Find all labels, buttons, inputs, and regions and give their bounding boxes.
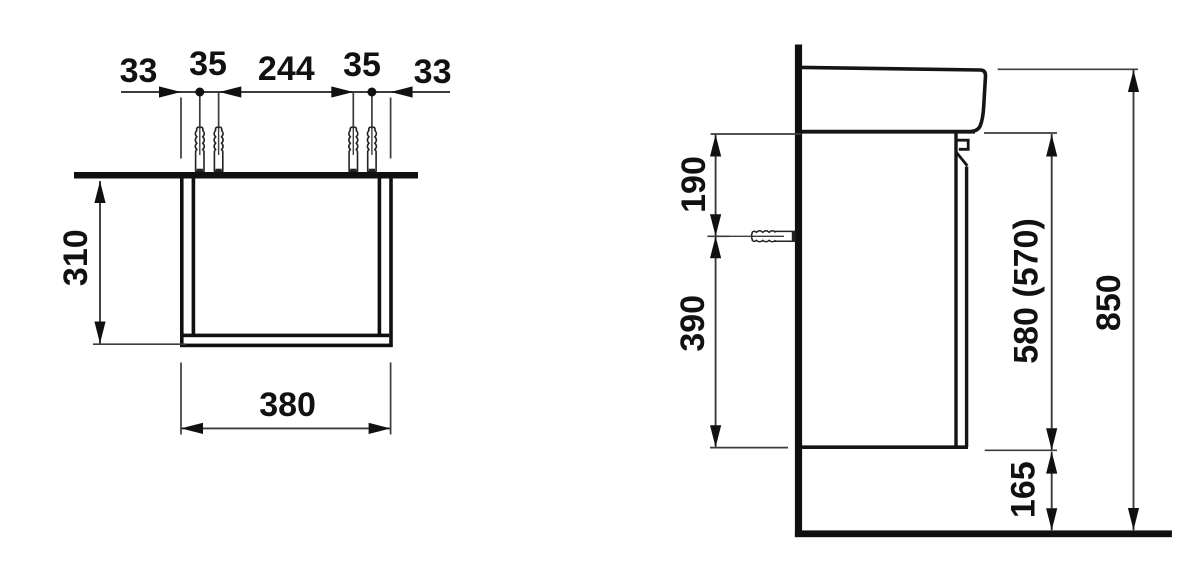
dot at dowel 4 — [367, 88, 376, 97]
tabletop panel — [74, 172, 418, 179]
floor — [795, 530, 1172, 537]
arrow right at box left ext — [159, 86, 181, 97]
arrow left at dowel2 — [219, 86, 241, 97]
cabinet top line extension under basin — [802, 130, 975, 134]
svg-text:310: 310 — [57, 229, 95, 286]
top dimension line — [121, 91, 450, 93]
190 arrow up — [710, 135, 721, 157]
svg-text:33: 33 — [414, 53, 452, 91]
svg-text:35: 35 — [189, 45, 227, 83]
165 arrow up — [1046, 452, 1057, 474]
cabinet inner right wall — [378, 179, 382, 338]
anchor level extension line — [707, 235, 729, 237]
cabinet inner left wall — [192, 179, 196, 338]
dot at dowel 1 — [195, 88, 204, 97]
cabinet inner bottom — [183, 334, 389, 338]
310 dimension line — [99, 181, 101, 344]
dowel 2 — [214, 127, 223, 171]
wall — [795, 45, 802, 538]
580 arrow down — [1046, 428, 1057, 450]
cabinet outer bottom — [180, 344, 393, 348]
svg-text:244: 244 — [258, 50, 315, 88]
580 arrow up — [1046, 135, 1057, 157]
380 extension line left — [180, 363, 182, 435]
580-165 boundary extension line — [985, 449, 1057, 451]
380 dimension line — [181, 427, 391, 429]
arrow right at dowel3 — [331, 86, 353, 97]
850 dimension line — [1133, 69, 1135, 530]
cabinet outer left wall — [180, 179, 184, 348]
190 arrow down — [710, 214, 721, 236]
165 arrow down — [1046, 508, 1057, 530]
center line dowel 3 — [352, 92, 354, 156]
850 top extension line — [998, 68, 1138, 70]
310 bottom extension line — [93, 343, 186, 345]
door groove diagonal — [957, 153, 968, 166]
svg-text:580 (570): 580 (570) — [1008, 218, 1046, 364]
cabinet outer right wall — [389, 179, 393, 348]
washbasin profile — [802, 67, 986, 131]
svg-text:190: 190 — [675, 156, 713, 213]
dowel 4 — [367, 127, 376, 171]
anchor center line — [708, 235, 785, 237]
cabinet carcass front edge — [954, 133, 957, 446]
cabinet bottom extension line left — [710, 447, 788, 449]
extension line box left edge — [180, 98, 182, 159]
center line dowel 2 — [218, 92, 220, 158]
svg-text:850: 850 — [1090, 274, 1128, 331]
door face — [965, 167, 968, 448]
wall anchor dowel horizontal — [752, 231, 795, 242]
850 arrow down — [1128, 508, 1139, 530]
190-390 dimension line — [715, 134, 717, 448]
door top profile — [956, 140, 969, 149]
svg-text:165: 165 — [1005, 461, 1043, 518]
cabinet top extension line left — [711, 133, 801, 135]
580 dimension line — [1051, 134, 1053, 450]
center line dowel 4 — [371, 92, 373, 156]
390 arrow down — [710, 425, 721, 447]
dowel 1 — [195, 127, 204, 171]
cabinet bottom — [802, 445, 968, 449]
arrow left at box right ext — [391, 86, 413, 97]
380 arrow right — [369, 423, 391, 434]
850 arrow up — [1128, 70, 1139, 92]
svg-text:35: 35 — [343, 46, 381, 84]
165 dimension line — [1051, 452, 1053, 531]
dowel 3 — [349, 127, 358, 171]
svg-text:380: 380 — [259, 386, 316, 424]
580 top extension line — [984, 132, 1057, 134]
svg-text:33: 33 — [120, 52, 158, 90]
center line dowel 1 — [199, 92, 201, 156]
390 arrow up — [710, 236, 721, 258]
svg-text:390: 390 — [674, 295, 712, 352]
380 extension line right — [390, 363, 392, 435]
310 arrow up — [94, 181, 105, 203]
extension line box right edge — [390, 98, 392, 159]
310 arrow down — [94, 322, 105, 344]
380 arrow left — [181, 423, 203, 434]
